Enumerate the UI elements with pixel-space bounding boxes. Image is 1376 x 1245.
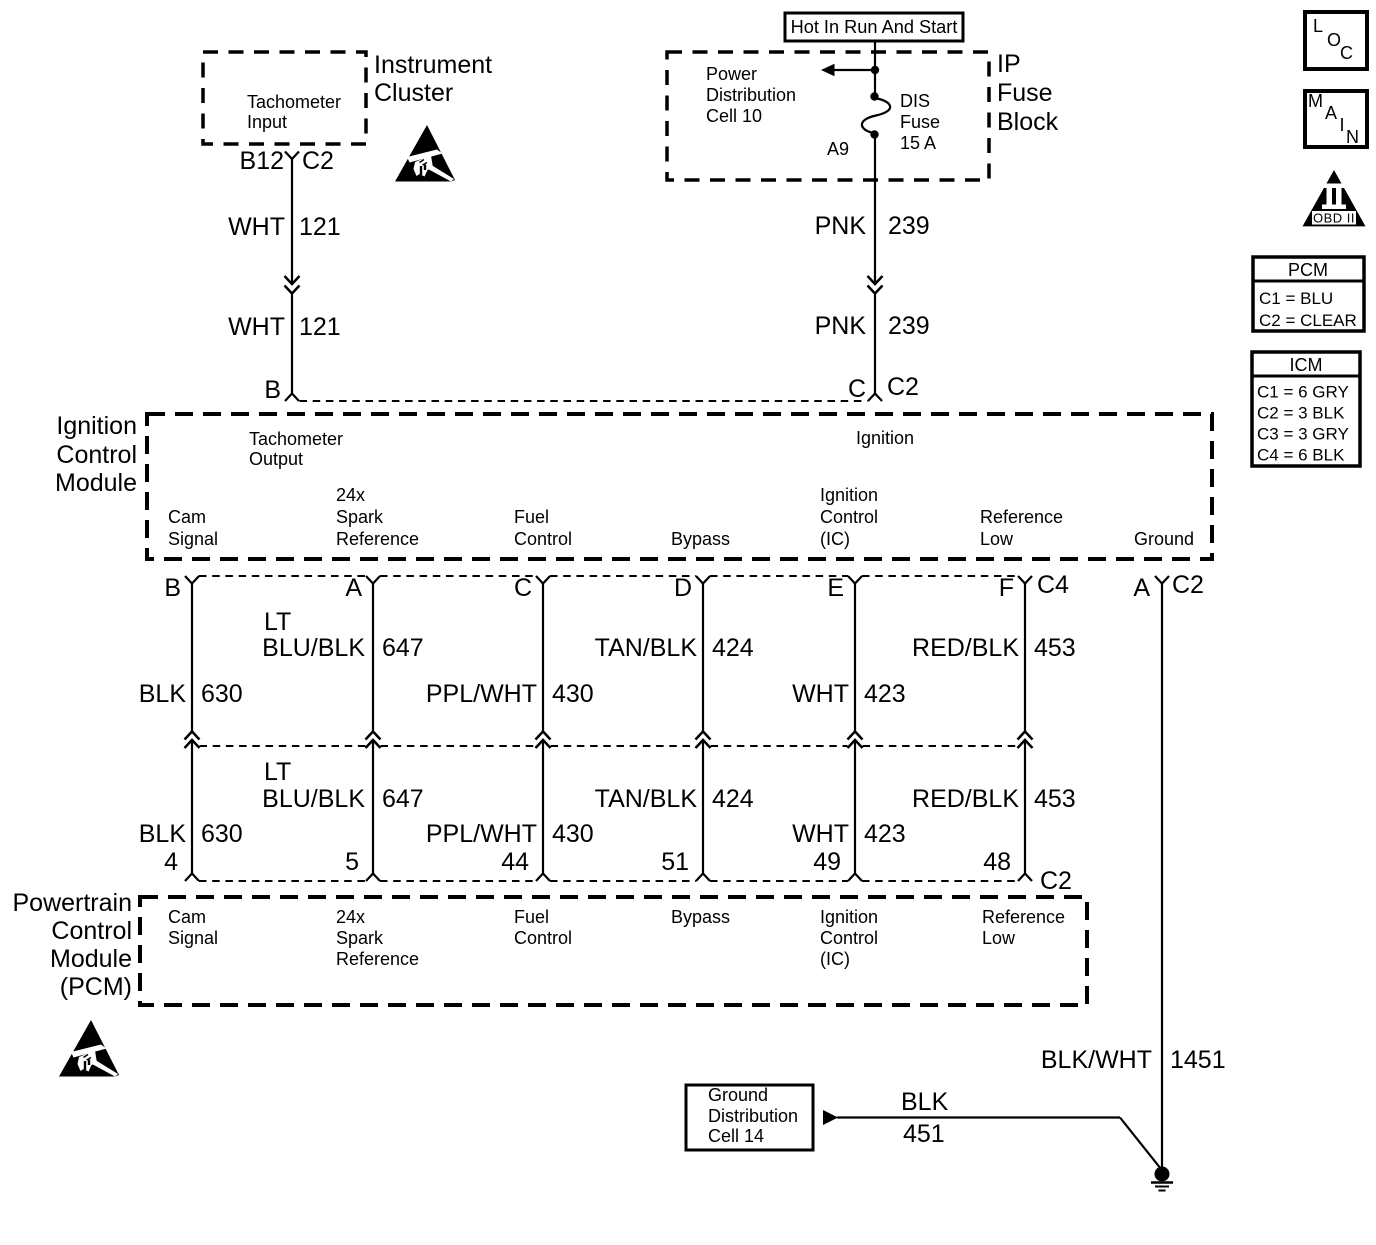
svg-text:A9: A9 — [827, 139, 849, 159]
svg-text:OBD II: OBD II — [1313, 211, 1355, 226]
svg-text:C: C — [514, 574, 532, 602]
svg-text:C3 = 3 GRY: C3 = 3 GRY — [1257, 425, 1349, 444]
svg-text:630: 630 — [201, 820, 243, 848]
svg-text:121: 121 — [299, 313, 341, 341]
svg-text:B: B — [264, 376, 281, 404]
svg-text:430: 430 — [552, 680, 594, 708]
ESD symbol PCM — [59, 1020, 119, 1077]
svg-text:PNK: PNK — [815, 312, 867, 340]
PCM connector legend table — [1253, 257, 1364, 331]
svg-text:(IC): (IC) — [820, 949, 850, 969]
svg-text:PCM: PCM — [1288, 260, 1328, 280]
junction dot — [871, 66, 879, 74]
svg-text:Block: Block — [997, 108, 1059, 136]
svg-text:24x: 24x — [336, 907, 365, 927]
PCM pin 49 terminal — [848, 874, 862, 882]
svg-text:Bypass: Bypass — [671, 529, 730, 549]
svg-text:Control: Control — [51, 917, 132, 945]
svg-text:A: A — [345, 574, 362, 602]
ICM C4 pin E terminal — [848, 576, 862, 584]
svg-text:Power: Power — [706, 64, 757, 84]
svg-text:WHT: WHT — [792, 820, 849, 848]
svg-text:Ignition: Ignition — [820, 907, 878, 927]
svg-text:423: 423 — [864, 680, 906, 708]
svg-text:49: 49 — [813, 848, 841, 876]
in-line connector on PNK 239 — [868, 276, 883, 284]
PCM C2 connector face line — [199, 880, 366, 882]
svg-text:A: A — [1325, 103, 1337, 123]
svg-text:LT: LT — [264, 608, 291, 636]
svg-text:BLU/BLK: BLU/BLK — [262, 634, 365, 662]
svg-text:RED/BLK: RED/BLK — [912, 785, 1019, 813]
svg-text:Tachometer: Tachometer — [249, 429, 343, 449]
wire from hot feed to fuse — [874, 41, 876, 97]
svg-text:Control: Control — [820, 928, 878, 948]
svg-text:453: 453 — [1034, 785, 1076, 813]
svg-text:Cell 10: Cell 10 — [706, 106, 762, 126]
svg-text:Cluster: Cluster — [374, 79, 453, 107]
ESD symbol instrument cluster — [395, 125, 455, 182]
svg-text:Bypass: Bypass — [671, 907, 730, 927]
wire WHT 121 lower segment — [291, 294, 293, 395]
wire TAN/BLK 424 upper segment — [702, 584, 704, 734]
in-line connector on wire WHT 423 — [848, 732, 863, 740]
wire BLK 451 diagonal segment — [1120, 1118, 1161, 1170]
wire BLU/BLK 647 upper segment — [372, 584, 374, 734]
svg-text:BLK: BLK — [139, 820, 187, 848]
PCM pin 5 terminal — [366, 874, 380, 882]
svg-text:423: 423 — [864, 820, 906, 848]
svg-text:WHT: WHT — [228, 313, 285, 341]
ICM C4 pin F terminal — [1018, 576, 1032, 584]
OBD II symbol — [1303, 170, 1366, 226]
wire BLK 451 horizontal segment — [837, 1116, 1120, 1118]
wire WHT 121 upper segment — [291, 159, 293, 282]
arrow to ground distribution — [823, 1110, 838, 1125]
svg-text:Reference: Reference — [980, 507, 1063, 527]
svg-text:239: 239 — [888, 212, 930, 240]
svg-text:Signal: Signal — [168, 928, 218, 948]
svg-text:Tachometer: Tachometer — [247, 92, 341, 112]
svg-text:Powertrain: Powertrain — [13, 889, 133, 917]
svg-text:B: B — [164, 574, 181, 602]
wire PNK 239 upper segment — [874, 134, 876, 282]
svg-text:121: 121 — [299, 213, 341, 241]
ICM C2 pin C terminal — [868, 394, 882, 402]
svg-text:C2: C2 — [1040, 867, 1072, 895]
svg-text:Ground: Ground — [1134, 529, 1194, 549]
svg-text:5: 5 — [345, 848, 359, 876]
svg-text:Cam: Cam — [168, 907, 206, 927]
ICM C2 pin B terminal — [285, 394, 299, 402]
svg-text:Hot In Run And Start: Hot In Run And Start — [791, 17, 958, 37]
svg-text:Reference: Reference — [336, 949, 419, 969]
ICM C4 connector face line — [199, 575, 366, 577]
LOC reference box — [1305, 12, 1367, 69]
svg-text:Cell 14: Cell 14 — [708, 1126, 764, 1146]
wire BLK 630 upper segment — [191, 584, 193, 734]
svg-text:Control: Control — [514, 928, 572, 948]
svg-text:451: 451 — [903, 1120, 945, 1148]
svg-text:424: 424 — [712, 785, 754, 813]
wire RED/BLK 453 lower segment — [1024, 741, 1026, 875]
svg-text:C2: C2 — [1172, 571, 1204, 599]
in-line connector on wire TAN/BLK 424 — [696, 732, 711, 740]
svg-text:(IC): (IC) — [820, 529, 850, 549]
svg-text:Instrument: Instrument — [374, 51, 492, 79]
svg-text:PNK: PNK — [815, 212, 867, 240]
svg-text:PPL/WHT: PPL/WHT — [426, 820, 537, 848]
svg-text:Output: Output — [249, 449, 303, 469]
svg-text:RED/BLK: RED/BLK — [912, 634, 1019, 662]
in-line connector on wire BLU/BLK 647 — [366, 732, 381, 740]
svg-text:44: 44 — [501, 848, 529, 876]
svg-text:Low: Low — [980, 529, 1014, 549]
ICM C4 pin C terminal — [536, 576, 550, 584]
svg-text:Ignition: Ignition — [56, 412, 137, 440]
PCM pin 4 terminal — [185, 874, 199, 882]
wire TAN/BLK 424 lower segment — [702, 741, 704, 875]
wire WHT 423 lower segment — [854, 741, 856, 875]
svg-text:BLK: BLK — [139, 680, 187, 708]
svg-text:Distribution: Distribution — [708, 1106, 798, 1126]
PCM pin 48 terminal — [1018, 874, 1032, 882]
svg-text:4: 4 — [164, 848, 178, 876]
svg-text:Fuse: Fuse — [900, 112, 940, 132]
svg-text:C: C — [848, 375, 866, 403]
svg-text:Fuse: Fuse — [997, 79, 1053, 107]
svg-text:Fuel: Fuel — [514, 907, 549, 927]
svg-text:C4 = 6 BLK: C4 = 6 BLK — [1257, 446, 1345, 465]
svg-text:51: 51 — [661, 848, 689, 876]
ground symbol G103 — [1155, 1167, 1170, 1182]
powertrain control module box — [140, 897, 1087, 1005]
svg-text:Control: Control — [514, 529, 572, 549]
svg-text:Low: Low — [982, 928, 1016, 948]
svg-text:C2: C2 — [887, 373, 919, 401]
svg-text:WHT: WHT — [792, 680, 849, 708]
svg-text:B12: B12 — [240, 147, 284, 175]
fuse DIS 15A — [870, 92, 878, 100]
ICM C2 ground pin A terminal — [1155, 576, 1169, 584]
wire PPL/WHT 430 upper segment — [542, 584, 544, 734]
svg-text:Fuel: Fuel — [514, 507, 549, 527]
svg-text:Ignition: Ignition — [856, 428, 914, 448]
connector C2 pin B12 terminal — [285, 152, 299, 160]
svg-text:PPL/WHT: PPL/WHT — [426, 680, 537, 708]
svg-text:Distribution: Distribution — [706, 85, 796, 105]
svg-text:Spark: Spark — [336, 507, 384, 527]
svg-text:239: 239 — [888, 312, 930, 340]
svg-text:Reference: Reference — [982, 907, 1065, 927]
svg-text:Ground: Ground — [708, 1085, 768, 1105]
in-line connector row — [200, 745, 366, 747]
svg-text:1451: 1451 — [1170, 1046, 1226, 1074]
PCM pin 44 terminal — [536, 874, 550, 882]
svg-text:647: 647 — [382, 634, 424, 662]
wire PPL/WHT 430 lower segment — [542, 741, 544, 875]
svg-text:ICM: ICM — [1290, 355, 1323, 375]
svg-text:Module: Module — [55, 469, 137, 497]
svg-text:424: 424 — [712, 634, 754, 662]
svg-text:Control: Control — [56, 441, 137, 469]
svg-text:647: 647 — [382, 785, 424, 813]
svg-text:E: E — [827, 574, 844, 602]
svg-text:Reference: Reference — [336, 529, 419, 549]
svg-text:453: 453 — [1034, 634, 1076, 662]
instrument cluster box — [203, 52, 366, 144]
svg-text:48: 48 — [983, 848, 1011, 876]
svg-text:LT: LT — [264, 758, 291, 786]
ICM C4 pin B terminal — [185, 576, 199, 584]
svg-text:15 A: 15 A — [900, 133, 936, 153]
svg-text:630: 630 — [201, 680, 243, 708]
svg-text:Spark: Spark — [336, 928, 384, 948]
svg-text:24x: 24x — [336, 485, 365, 505]
svg-text:Ignition: Ignition — [820, 485, 878, 505]
svg-text:M: M — [1308, 91, 1323, 111]
svg-text:IP: IP — [997, 50, 1021, 78]
svg-text:C1 = BLU: C1 = BLU — [1259, 289, 1333, 308]
wire WHT 423 upper segment — [854, 584, 856, 734]
svg-text:(PCM): (PCM) — [60, 973, 132, 1001]
svg-text:TAN/BLK: TAN/BLK — [595, 634, 698, 662]
wire PNK 239 lower segment — [874, 294, 876, 395]
svg-text:Control: Control — [820, 507, 878, 527]
wire BLK/WHT 1451 ground wire — [1161, 584, 1163, 1169]
in-line connector on WHT 121 — [285, 276, 300, 284]
svg-text:TAN/BLK: TAN/BLK — [595, 785, 698, 813]
svg-text:BLU/BLK: BLU/BLK — [262, 785, 365, 813]
in-line connector on wire RED/BLK 453 — [1018, 732, 1033, 740]
svg-text:430: 430 — [552, 820, 594, 848]
svg-text:BLK/WHT: BLK/WHT — [1041, 1046, 1152, 1074]
IP fuse block box — [667, 52, 989, 180]
svg-text:Input: Input — [247, 112, 287, 132]
ICM C4 pin A terminal — [366, 576, 380, 584]
svg-text:C2 = 3 BLK: C2 = 3 BLK — [1257, 404, 1345, 423]
svg-text:D: D — [674, 574, 692, 602]
ground distribution cell 14 box — [686, 1085, 813, 1150]
ICM C2 connector face line — [300, 400, 868, 402]
svg-text:C: C — [1340, 43, 1353, 63]
svg-text:Cam: Cam — [168, 507, 206, 527]
wire BLK 630 lower segment — [191, 741, 193, 875]
svg-text:A: A — [1133, 574, 1150, 602]
svg-text:C4: C4 — [1037, 571, 1069, 599]
svg-text:BLK: BLK — [901, 1088, 949, 1116]
PCM pin 51 terminal — [696, 874, 710, 882]
Hot In Run And Start label box — [785, 13, 963, 41]
svg-text:C2 = CLEAR: C2 = CLEAR — [1259, 311, 1357, 330]
svg-text:DIS: DIS — [900, 91, 930, 111]
MAIN reference box — [1305, 91, 1367, 147]
svg-text:C2: C2 — [302, 147, 334, 175]
ICM connector legend table — [1252, 352, 1360, 466]
svg-text:N: N — [1346, 127, 1359, 147]
in-line connector on wire PPL/WHT 430 — [536, 732, 551, 740]
svg-text:O: O — [1327, 30, 1341, 50]
svg-text:Signal: Signal — [168, 529, 218, 549]
svg-text:L: L — [1313, 16, 1323, 36]
wire BLU/BLK 647 lower segment — [372, 741, 374, 875]
svg-text:F: F — [999, 574, 1014, 602]
svg-text:Module: Module — [50, 945, 132, 973]
ICM C4 pin D terminal — [696, 576, 710, 584]
svg-text:C1 = 6 GRY: C1 = 6 GRY — [1257, 383, 1349, 402]
ignition control module box — [147, 414, 1212, 559]
svg-text:WHT: WHT — [228, 213, 285, 241]
arrow to power distribution — [833, 69, 875, 71]
svg-text:I: I — [1340, 115, 1345, 135]
wire RED/BLK 453 upper segment — [1024, 584, 1026, 734]
in-line connector on wire BLK 630 — [185, 732, 200, 740]
